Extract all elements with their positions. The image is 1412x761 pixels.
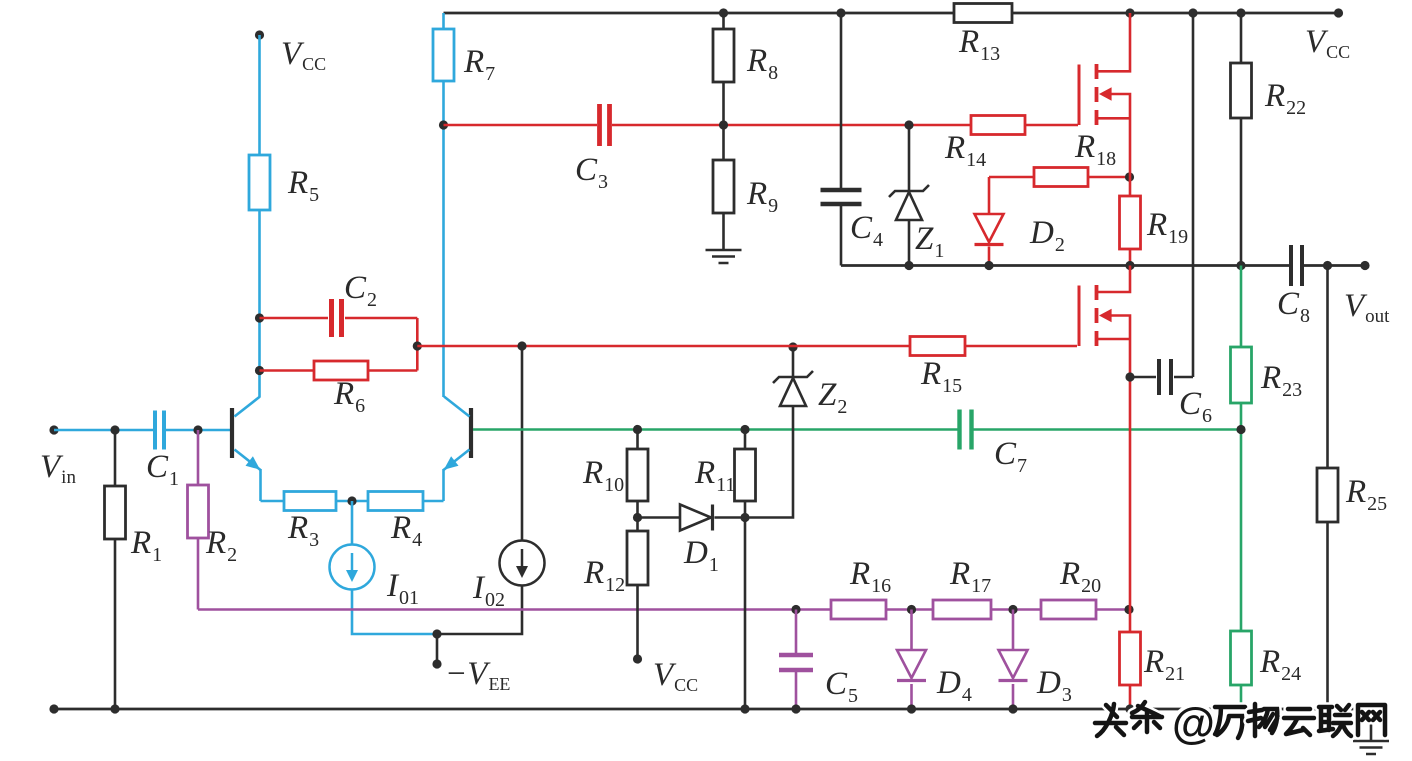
node R10 top	[633, 425, 642, 434]
node top rail R22	[1236, 8, 1245, 17]
resistor R1	[114, 430, 117, 486]
resistor R12	[627, 531, 648, 585]
resistor R4	[368, 492, 423, 511]
diode D3	[1012, 610, 1015, 710]
resistor R3	[284, 492, 336, 511]
capacitor C4	[840, 13, 843, 266]
node bottom R11 line	[740, 704, 749, 713]
wire R10 bottom	[636, 501, 639, 531]
wire R6 left lead	[260, 369, 315, 372]
mosfet Q3 upper	[1097, 13, 1131, 71]
wire R11 bottom	[744, 501, 747, 518]
wire R12 to Vcc terminal	[636, 585, 639, 659]
wire R7 to Q2 collector	[442, 81, 445, 397]
wire R9 to ground	[722, 213, 725, 250]
node Vin terminal	[49, 425, 58, 434]
wire top Vcc rail	[444, 12, 1339, 15]
capacitor C3	[600, 104, 610, 146]
node C1 right / R2 tap	[193, 425, 202, 434]
node D2 bottom	[984, 261, 993, 270]
node bias D4 tap	[907, 605, 916, 614]
resistor R11	[744, 430, 747, 450]
capacitor C1	[155, 411, 164, 450]
capacitor C5	[795, 610, 798, 710]
watermark text	[1095, 704, 1126, 736]
wire bottom rail	[54, 708, 1371, 711]
current source I01	[330, 545, 375, 590]
node R18/R19/mosfet source	[1125, 172, 1134, 181]
node Vcc bottom terminal	[633, 654, 642, 663]
node top rail mosfet drain	[1125, 8, 1134, 17]
resistor R10	[636, 430, 639, 450]
svg-text:@: @	[1172, 699, 1215, 748]
wire Q output red line y=346	[417, 345, 1077, 348]
wire R5 to Q1 collector	[258, 210, 261, 397]
node R19 bottom	[1125, 261, 1134, 270]
node R21 bottom	[1125, 704, 1134, 713]
node Vcc left terminal	[255, 30, 264, 39]
wire purple bias line	[198, 608, 1129, 611]
node Z2 top on red wire	[788, 342, 797, 351]
wire R23 to green line	[1240, 403, 1243, 631]
resistor R19	[1129, 177, 1132, 196]
wire I02 top	[521, 346, 524, 541]
node input R1 tap	[110, 425, 119, 434]
node R11 top	[740, 425, 749, 434]
resistor R5	[249, 155, 270, 210]
node Vout junction	[1323, 261, 1332, 270]
node bottom D4	[907, 704, 916, 713]
node I02 tap on red line	[517, 341, 526, 350]
transistor Q2 emitter	[444, 450, 470, 471]
capacitor C2	[332, 299, 342, 337]
capacitor C6	[1130, 376, 1156, 379]
node bottom D3	[1008, 704, 1017, 713]
transistor Q2 base bar	[469, 408, 473, 458]
node Z1 bottom	[904, 261, 913, 270]
resistor R2	[197, 430, 200, 485]
node R24 bottom	[1236, 704, 1245, 713]
resistor R25	[1326, 266, 1329, 469]
wire I01 to -Vee node	[352, 590, 437, 635]
node Vout terminal	[1360, 261, 1369, 270]
wire mosfet source to R21	[1129, 377, 1132, 632]
resistor R20	[1041, 600, 1096, 619]
diode D4	[910, 610, 913, 710]
wire R2 to purple bias line	[197, 538, 200, 610]
node bias D3 tap	[1008, 605, 1017, 614]
wire I01 top	[351, 501, 354, 545]
capacitor C8	[1291, 245, 1302, 286]
zener Z1	[908, 125, 911, 191]
node top rail end terminal	[1334, 8, 1343, 17]
resistor R6	[314, 361, 368, 380]
node C6 tap	[1125, 372, 1134, 381]
capacitor C7	[960, 410, 972, 450]
wire C2 branch	[260, 318, 418, 371]
resistor R16	[831, 600, 886, 619]
node R8/R9 red tap	[719, 120, 728, 129]
node feedback output	[413, 341, 422, 350]
resistor R9	[713, 160, 734, 213]
node top rail C6	[1188, 8, 1197, 17]
wire emitter degeneration	[261, 500, 444, 503]
node bottom R1	[110, 704, 119, 713]
wire red node line y=125	[444, 124, 1079, 127]
transistor Q1 emitter	[235, 450, 261, 471]
wire I02 to -Vee node	[437, 586, 522, 635]
resistor R22	[1240, 13, 1243, 63]
diode D1	[638, 516, 746, 519]
node bottom rail terminal	[49, 704, 58, 713]
resistor R23	[1240, 266, 1243, 348]
wire Vcc to R5	[258, 35, 261, 155]
wire C6 to top rail	[1192, 13, 1195, 377]
node bias C5 tap	[791, 605, 800, 614]
node R10/R12/D1	[633, 513, 642, 522]
ground bottom right	[1370, 709, 1373, 741]
resistor R15	[910, 337, 965, 356]
node R6 left	[255, 366, 264, 375]
node Z1 top on red wire	[904, 120, 913, 129]
wire middle black rail y=265.5	[841, 264, 1365, 267]
resistor R17	[933, 600, 991, 619]
wire green line	[473, 428, 1241, 431]
node green line join	[1236, 425, 1245, 434]
node bottom C5	[791, 704, 800, 713]
wire R11 node to bottom rail	[744, 518, 747, 710]
node top rail C4	[836, 8, 845, 17]
resistor R14	[971, 116, 1025, 135]
node -Vee junction	[432, 629, 441, 638]
resistor R18	[989, 176, 1034, 179]
resistor R13	[954, 4, 1012, 23]
wire -Vee stub	[436, 634, 439, 664]
resistor R21	[1120, 632, 1141, 685]
diode D2	[988, 177, 991, 214]
resistor R24	[1231, 631, 1252, 685]
zener Z2	[792, 347, 795, 377]
ground R9	[706, 250, 742, 263]
node C2 left	[255, 313, 264, 322]
node D1/R11/Z2	[740, 513, 749, 522]
node R7 red tap	[439, 120, 448, 129]
node top rail R8	[719, 8, 728, 17]
transistor Q1 base bar	[230, 408, 234, 458]
wire input	[54, 429, 231, 432]
resistor R8	[722, 13, 725, 29]
transistor Q1 collector	[235, 397, 261, 417]
transistor Q2 collector	[444, 397, 470, 417]
resistor R7	[442, 13, 445, 29]
node emitter center	[347, 496, 356, 505]
mosfet Q4 lower	[1097, 266, 1131, 293]
node -Vee terminal	[432, 659, 441, 668]
node mid rail R22/R23	[1236, 261, 1245, 270]
node bias to R21 line	[1124, 605, 1133, 614]
current source I02	[500, 541, 545, 586]
